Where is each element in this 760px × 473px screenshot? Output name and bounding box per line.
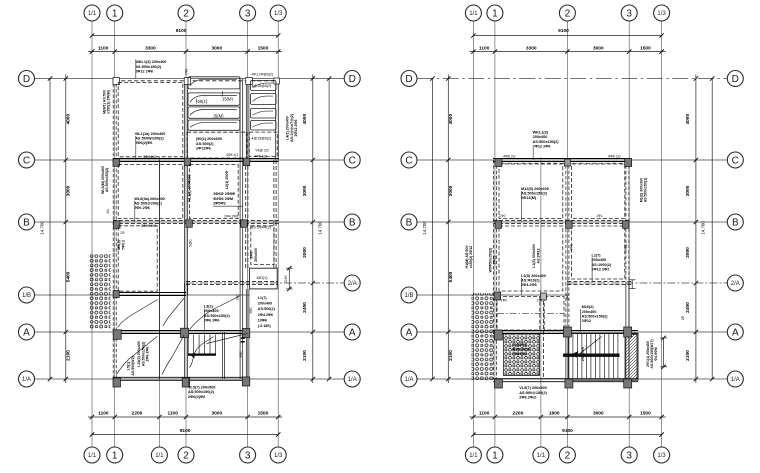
svg-text:1: 1 — [492, 451, 498, 462]
axis line 2/A — [186, 282, 344, 284]
svg-text:AS:500x150(2): AS:500x150(2) — [105, 167, 109, 192]
svg-text:1: 1 — [112, 451, 118, 462]
left plan column 3-B — [241, 220, 248, 228]
right plan right axis bubble C — [727, 152, 743, 168]
svg-text:2100: 2100 — [685, 350, 691, 361]
right axis line right-v1/1a — [472, 21, 474, 447]
svg-text:2Φ6Y400: 2Φ6Y400 — [141, 224, 156, 228]
left plan column 3-1/A — [242, 377, 250, 386]
svg-text:3: 3 — [245, 9, 251, 20]
svg-text:C20ΦΦ4: C20ΦΦ4 — [512, 343, 527, 347]
right plan bottom axis bubble 1/3 — [654, 447, 670, 463]
svg-text:2/A: 2/A — [348, 281, 357, 287]
svg-text:2Φ12: 2Φ12 — [582, 319, 591, 323]
svg-text:JΦ1: JΦ1 — [596, 214, 602, 218]
left plan bottom axis bubble 1/3 — [270, 447, 286, 463]
svg-text:A: A — [349, 328, 356, 339]
svg-text:1500: 1500 — [640, 45, 651, 51]
left plan note M1 leader — [135, 136, 137, 160]
left axis line left-v2 — [185, 21, 187, 447]
svg-text:C: C — [23, 156, 30, 167]
svg-text:24C: 24C — [236, 294, 240, 301]
svg-text:2Φ12(M): 2Φ12(M) — [521, 196, 537, 200]
left plan wall mid 2-3 (double) — [239, 79, 241, 380]
svg-text:2ΦC: 2ΦC — [565, 293, 569, 300]
left plan wall axis3 lower (double) — [245, 289, 247, 379]
svg-text:1100: 1100 — [98, 45, 109, 51]
left plan plank dashed panel — [187, 132, 247, 158]
left plan right axis bubble 2/A — [344, 275, 360, 291]
svg-text:4@15@6(2): 4@15@6(2) — [252, 137, 272, 141]
svg-text:200x400: 200x400 — [533, 135, 548, 139]
svg-text:AS:500(2): AS:500(2) — [196, 142, 214, 146]
left plan right axis bubble 1/A — [344, 371, 360, 387]
left bottom total dim line — [92, 434, 278, 436]
left plan bottom axis bubble 1/1 — [84, 447, 100, 463]
svg-text:2Φ12 2Φ2: 2Φ12 2Φ2 — [592, 267, 610, 271]
left plan bottom axis bubble 3 — [240, 447, 256, 463]
left plan column 2-B — [186, 220, 193, 228]
left plan left axis bubble 1/A — [19, 371, 35, 387]
svg-text:A: A — [732, 328, 739, 339]
right axis line C — [417, 159, 727, 161]
svg-text:2Φ6 2Φ6: 2Φ6 2Φ6 — [146, 347, 150, 362]
svg-text:4Φ6 2(2: 4Φ6 2(2 — [143, 155, 156, 159]
svg-text:1/A: 1/A — [731, 377, 740, 383]
right plan room C-B dashed 1 — [499, 164, 563, 219]
svg-text:B: B — [406, 218, 413, 229]
right plan left axis bubble C — [401, 152, 417, 168]
svg-text:AS:2Φ12: AS:2Φ12 — [536, 248, 540, 263]
right plan bottom axis bubble 1/1 — [465, 447, 481, 463]
svg-text:2Φ6.2Φ@: 2Φ6.2Φ@ — [519, 395, 537, 399]
svg-text:3300: 3300 — [145, 45, 156, 51]
svg-text:1100: 1100 — [167, 411, 178, 417]
svg-text:(50(1) 200x600: (50(1) 200x600 — [196, 137, 222, 141]
right left segment chain line — [447, 75, 449, 384]
left plan column 3-C — [243, 158, 250, 166]
right plan top axis bubble 1/3 — [654, 5, 670, 21]
right plan C beam (double) — [493, 158, 631, 160]
svg-text:10Φ6: 10Φ6 — [258, 318, 267, 322]
left plan wall axis2 (double) — [184, 79, 186, 380]
svg-text:M12(5) 200x600: M12(5) 200x600 — [521, 187, 549, 191]
left plan room B-1/B dashed inner — [118, 226, 157, 291]
right right segment chain line — [695, 75, 697, 384]
svg-text:AS:Φ10(2): AS:Φ10(2) — [521, 278, 540, 282]
left top segment dim line — [88, 51, 282, 53]
left plan slab diagonal room 1/B-A c — [190, 296, 241, 330]
svg-text:AS:500x150(1): AS:500x150(1) — [644, 177, 648, 202]
right plan bottom axis bubble 2 — [559, 447, 575, 463]
svg-text:x150(2) 2Φ12: x150(2) 2Φ12 — [469, 246, 473, 268]
left plan stair treads — [187, 335, 189, 354]
left plan D-row edge beam (dashed) — [115, 80, 279, 82]
left plan small plank row4 — [251, 121, 277, 131]
svg-text:1Φ0: 1Φ0 — [499, 214, 506, 218]
svg-text:AS:500W/200(2): AS:500W/200(2) — [135, 137, 164, 141]
left plan C beam (double) — [113, 158, 279, 160]
left plan 2/A dim bracket — [288, 268, 290, 289]
svg-text:ML1(1a) 200x400: ML1(1a) 200x400 — [135, 132, 165, 136]
svg-text:2Φ12 2Φ6: 2Φ12 2Φ6 — [533, 144, 551, 148]
axis line 2/A — [569, 282, 727, 284]
svg-text:Φ2Φ6 2ΦM: Φ2Φ6 2ΦM — [213, 197, 233, 201]
left axis line 1/A — [35, 378, 344, 380]
right axis line 1/A — [417, 378, 727, 380]
left plan right axis bubble A — [344, 324, 360, 340]
svg-text:2Φ12: 2Φ12 — [493, 256, 497, 265]
svg-text:3000: 3000 — [593, 45, 604, 51]
svg-text:2Φ6(2)Φ6: 2Φ6(2)Φ6 — [135, 141, 152, 145]
svg-text:7Φ0.2: 7Φ0.2 — [121, 240, 125, 250]
svg-text:WL: WL — [106, 208, 110, 213]
svg-text:1/1: 1/1 — [469, 453, 478, 459]
left plan right axis bubble B — [344, 214, 360, 230]
left bottom segment dim line — [88, 416, 282, 418]
svg-text:4Φ6 2U: 4Φ6 2U — [503, 155, 516, 159]
svg-text:1100: 1100 — [479, 45, 490, 51]
left plan left axis bubble A — [19, 324, 35, 340]
left axis line C — [35, 159, 344, 161]
svg-text:1Φ0: 1Φ0 — [501, 298, 507, 302]
svg-text:x150(1) 2Φ(M): x150(1) 2Φ(M) — [107, 89, 111, 114]
right right total chain line — [711, 79, 713, 380]
svg-text:WL6(3a) 200x400: WL6(3a) 200x400 — [134, 197, 165, 201]
right plan 2/A dim bracket — [631, 280, 633, 289]
right axis line right-v1/1 — [540, 157, 542, 447]
left plan plank leader ticks — [221, 91, 223, 97]
right plan stair side bracket — [663, 338, 665, 367]
svg-text:2Φ12 2Φ6: 2Φ12 2Φ6 — [294, 120, 298, 137]
svg-text:1100: 1100 — [479, 411, 490, 417]
left plan stair wall 1/1 — [158, 160, 160, 379]
svg-text:4000: 4000 — [302, 114, 308, 125]
right plan right axis bubble 1/A — [727, 371, 743, 387]
right plan left axis bubble D — [401, 71, 417, 87]
svg-text:1/1: 1/1 — [88, 453, 97, 459]
left plan 1/A bottom beam (double) — [113, 376, 250, 378]
svg-text:2Φ12Φ6: 2Φ12Φ6 — [196, 146, 211, 150]
svg-text:3: 3 — [245, 451, 251, 462]
left plan column 2-C — [184, 158, 191, 166]
svg-text:(5(M): (5(M) — [214, 114, 225, 119]
svg-text:9100: 9100 — [176, 28, 187, 34]
svg-text:AS:500@200(2): AS:500@200(2) — [134, 201, 162, 205]
left axis line left-v3 — [247, 21, 249, 447]
svg-text:B: B — [349, 218, 356, 229]
svg-text:AS:500x150(2): AS:500x150(2) — [533, 140, 560, 144]
right plan wall 1/1 lower — [542, 295, 544, 379]
left plan left axis bubble 1/B — [19, 287, 35, 303]
svg-text:L3(2): L3(2) — [204, 305, 214, 309]
svg-text:3000: 3000 — [211, 45, 222, 51]
right plan 2/A beam (dashed double) — [567, 281, 631, 283]
right axis line right-v1/3 — [661, 21, 663, 447]
right plan top axis bubble 3 — [621, 5, 637, 21]
left plan room D-C dashed inner — [118, 83, 183, 157]
left plan note WL6 leader — [134, 201, 136, 222]
left plan slab diagonal room 1/B-A a — [118, 300, 158, 328]
right plan stair treads — [572, 334, 574, 378]
left plan stair well wall — [221, 332, 223, 379]
svg-text:(-0.180): (-0.180) — [258, 324, 272, 328]
svg-text:D: D — [23, 74, 30, 85]
svg-text:15(M): 15(M) — [222, 97, 234, 102]
left plan floor plank row4 — [188, 120, 240, 130]
right plan note L1(5) leader — [521, 278, 523, 295]
right plan note WKL1 leader — [532, 148, 534, 160]
svg-text:1/3: 1/3 — [274, 11, 283, 17]
svg-text:5400: 5400 — [66, 271, 72, 282]
svg-text:4000: 4000 — [448, 114, 454, 125]
svg-text:1/B: 1/B — [404, 293, 413, 299]
right plan wall axis3 (dashed double) — [625, 160, 627, 283]
svg-text:M16(2): M16(2) — [582, 305, 595, 309]
svg-text:1/A: 1/A — [22, 377, 31, 383]
svg-text:3000: 3000 — [448, 185, 454, 196]
left plan stair rail — [188, 354, 216, 356]
svg-text:2: 2 — [565, 9, 571, 20]
right plan note M12 leader — [521, 191, 523, 222]
right plan stair mid landing line — [563, 354, 620, 356]
svg-text:4@15@6(2): 4@15@6(2) — [252, 84, 272, 88]
right plan bottom axis bubble 1/1 — [533, 447, 549, 463]
svg-text:1500: 1500 — [258, 411, 269, 417]
left plan column 2-D — [184, 78, 191, 85]
right plan right axis bubble D — [727, 71, 743, 87]
svg-text:3000: 3000 — [302, 185, 308, 196]
right plan gravel hatch zone A — [472, 293, 494, 380]
svg-text:D: D — [349, 74, 356, 85]
left plan note VL5 leader — [188, 379, 190, 385]
svg-text:2Φ6: 2Φ6 — [185, 69, 189, 75]
svg-text:3000: 3000 — [685, 247, 691, 258]
left plan top axis bubble 1 — [107, 5, 123, 21]
svg-text:Φ2Φ1Φ2Φ: Φ2Φ1Φ2Φ — [512, 347, 530, 351]
right plan column 15-1/B — [540, 293, 546, 300]
svg-text:14.700: 14.700 — [40, 221, 45, 235]
left plan B beam (dashed double) — [113, 220, 279, 222]
svg-text:Φ4.5ΦM: Φ4.5ΦM — [654, 347, 658, 361]
right plan column 3-B — [623, 221, 630, 229]
svg-text:2: 2 — [183, 451, 189, 462]
right plan note M16 leader — [580, 309, 582, 332]
left plan column 1-C — [113, 159, 120, 167]
left plan floor plank row2 — [188, 93, 240, 105]
svg-text:9100: 9100 — [558, 28, 569, 34]
svg-text:2Φ12 2Φ6: 2Φ12 2Φ6 — [135, 69, 153, 73]
svg-text:2200: 2200 — [132, 411, 143, 417]
svg-text:C: C — [732, 156, 739, 167]
right axis line right-v2 — [566, 21, 568, 447]
left plan top axis bubble 1/1 — [84, 5, 100, 21]
right plan column 2-C — [564, 159, 570, 166]
left plan left axis bubble B — [19, 214, 35, 230]
left axis line left-v1/3 — [277, 21, 279, 447]
svg-text:3ΦC: 3ΦC — [570, 243, 574, 250]
svg-text:3300: 3300 — [526, 45, 537, 51]
svg-text:A: A — [406, 328, 413, 339]
left left total chain line — [49, 79, 51, 380]
svg-text:1/1: 1/1 — [88, 11, 97, 17]
svg-text:2: 2 — [565, 451, 571, 462]
svg-text:1100: 1100 — [98, 411, 109, 417]
left plan small plank row3 — [251, 109, 277, 119]
svg-text:4Φ6 1(2: 4Φ6 1(2 — [254, 155, 267, 159]
svg-text:1800: 1800 — [549, 411, 560, 417]
svg-text:2100: 2100 — [302, 350, 308, 361]
svg-text:1/1: 1/1 — [155, 453, 164, 459]
right axis line A — [417, 331, 727, 333]
right plan stair rail — [563, 353, 620, 355]
left plan column 1/3-D — [274, 78, 280, 84]
left plan 1/B beam (double) — [113, 292, 186, 294]
right plan stair arrow — [576, 336, 602, 356]
left plan floor plank row3 — [188, 107, 240, 118]
right plan room 1/B-A dashed 1 — [497, 297, 540, 331]
svg-text:B: B — [732, 218, 739, 229]
right top total dim line — [473, 35, 661, 37]
left plan bottom axis bubble 1/1 — [151, 447, 167, 463]
right plan shaft hatch — [625, 335, 637, 380]
left plan room C-B dashed inner 1 — [118, 165, 183, 219]
right plan left axis bubble 1/B — [401, 287, 417, 303]
svg-text:AS:500(2): AS:500(2) — [258, 307, 276, 311]
left plan wall axis3 upper (double) — [245, 79, 247, 161]
svg-text:1/A: 1/A — [404, 377, 413, 383]
svg-text:C: C — [405, 156, 412, 167]
right plan wall axis3 lower (double) — [625, 283, 627, 379]
left top total dim line — [92, 35, 278, 37]
left plan note cluster leader — [213, 205, 243, 207]
svg-text:2Φ4.2Φ6: 2Φ4.2Φ6 — [258, 313, 273, 317]
right plan C beam lower dashes — [495, 162, 629, 164]
right bottom segment dim line — [469, 416, 665, 418]
svg-text:AS:500@150(2): AS:500@150(2) — [519, 391, 547, 395]
right plan wall axis1 (dashed double) — [492, 160, 494, 379]
svg-text:1: 1 — [112, 9, 118, 20]
right plan stair room outline — [569, 333, 639, 380]
left plan note WKL1 leader — [135, 60, 137, 79]
svg-text:2100: 2100 — [448, 350, 454, 361]
left plan wall axis1/3 (double) — [275, 79, 277, 161]
left axis line A — [35, 331, 344, 333]
right plan top axis bubble 1 — [487, 5, 503, 21]
left axis line B — [35, 221, 344, 223]
right left total chain line — [432, 79, 434, 380]
svg-text:1Φ1: 1Φ1 — [537, 298, 543, 302]
left plan top axis bubble 1/3 — [270, 5, 286, 21]
svg-text:2Φ6(2)Φ6: 2Φ6(2)Φ6 — [188, 395, 205, 399]
left plan column 3-D — [246, 78, 253, 85]
left plan bottom axis bubble 2 — [178, 447, 194, 463]
left plan floor plank row1 — [188, 77, 240, 89]
svg-text:WKL1(3) 200x400: WKL1(3) 200x400 — [135, 60, 166, 64]
right plan A beam (double) — [493, 330, 638, 332]
right plan column 1-1/B — [494, 292, 501, 300]
svg-text:4Φ1 2Φ@6(2): 4Φ1 2Φ@6(2) — [252, 72, 273, 76]
svg-text:2/A: 2/A — [731, 281, 740, 287]
right plan top axis bubble 1/1 — [465, 5, 481, 21]
svg-text:2Φ12ΦH: 2Φ12ΦH — [581, 346, 585, 361]
right plan wall axis2 lower (double) — [565, 332, 567, 379]
right plan right axis bubble 2/A — [727, 275, 743, 291]
left plan A beam (double) — [113, 330, 250, 332]
svg-text:2Φ6 2Φ6: 2Φ6 2Φ6 — [134, 206, 150, 210]
svg-text:4000: 4000 — [66, 114, 72, 125]
right plan column 3-C — [625, 159, 632, 167]
svg-text:1500: 1500 — [640, 411, 651, 417]
right plan right axis bubble B — [727, 214, 743, 230]
right plan column 1-1/A — [494, 379, 502, 388]
svg-text:5400: 5400 — [448, 271, 454, 282]
svg-text:L1(7): L1(7) — [258, 296, 268, 300]
svg-text:AS:500x150(2): AS:500x150(2) — [135, 65, 162, 69]
axis line 1/B — [35, 294, 250, 296]
left right segment chain line — [312, 75, 314, 384]
left axis line D — [35, 78, 344, 80]
right plan column 2-B — [566, 221, 573, 229]
svg-text:AS:500x150(2): AS:500x150(2) — [188, 390, 215, 394]
right plan column 1-C — [495, 159, 502, 167]
left plan gravel hatch zone — [89, 254, 111, 329]
left plan small plank row1 — [251, 81, 277, 91]
svg-text:C: C — [349, 156, 356, 167]
svg-text:KL1(1) 300Φ600: KL1(1) 300Φ600 — [188, 174, 192, 201]
left plan left axis bubble C — [19, 152, 35, 168]
svg-text:9100: 9100 — [180, 428, 191, 434]
left plan column 1-1/A — [113, 378, 121, 387]
svg-text:1/3: 1/3 — [274, 453, 283, 459]
right plan column 3-A — [624, 327, 632, 337]
left plan small-plank dashed panel — [249, 132, 277, 156]
svg-text:2400: 2400 — [685, 302, 691, 313]
svg-text:3000: 3000 — [685, 185, 691, 196]
left plan wall axis3 mid (dashed) — [245, 160, 247, 222]
left plan room C-B dashed inner 2 — [189, 165, 238, 219]
svg-text:VL5(7) 200x500: VL5(7) 200x500 — [188, 386, 215, 390]
right axis line right-v3 — [628, 21, 630, 447]
right axis line right-v1 — [494, 21, 496, 447]
svg-text:2Φ5Φ2: 2Φ5Φ2 — [213, 201, 226, 205]
svg-text:B: B — [23, 218, 30, 229]
axis line 1/B — [417, 294, 567, 296]
right plan bottom axis bubble 3 — [621, 447, 637, 463]
svg-text:3ΦC: 3ΦC — [239, 350, 243, 357]
svg-text:1160: 1160 — [284, 275, 288, 282]
right plan wall axis2 (dashed double) — [565, 160, 567, 332]
left plan right axis bubble C — [344, 152, 360, 168]
svg-text:2400: 2400 — [302, 302, 308, 313]
svg-text:300x600: 300x600 — [254, 248, 258, 262]
svg-text:D: D — [732, 74, 739, 85]
svg-text:2Φ6 2Φ6: 2Φ6 2Φ6 — [204, 318, 220, 322]
right plan column 3-1/A — [624, 379, 632, 388]
svg-text:1/3: 1/3 — [657, 11, 666, 17]
svg-text:180(1): 180(1) — [256, 275, 268, 280]
left plan beam jog at axis2 — [184, 283, 186, 294]
left plan slab diagonal room A-1/A b — [162, 335, 184, 375]
right axis line B — [417, 221, 727, 223]
svg-text:200x400: 200x400 — [258, 302, 272, 306]
right plan room 1/B-A centerline — [497, 312, 564, 314]
svg-text:2100: 2100 — [66, 350, 72, 361]
left plan wall axis1/3 mid (dashed) — [273, 160, 275, 222]
right plan B beam (dashed double) — [493, 220, 631, 222]
svg-text:14.700: 14.700 — [317, 221, 322, 235]
right top segment dim line — [469, 51, 665, 53]
